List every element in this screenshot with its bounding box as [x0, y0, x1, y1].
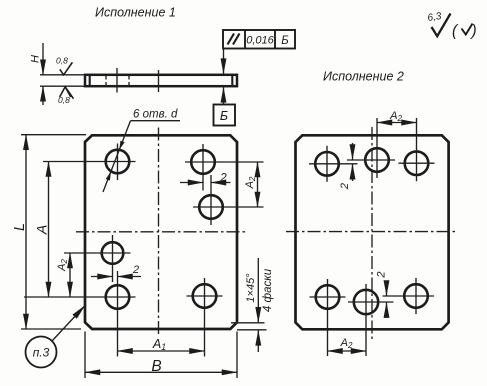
- svg-text:4 фаски: 4 фаски: [262, 268, 274, 312]
- svg-text:2: 2: [219, 173, 227, 185]
- svg-text:2: 2: [376, 271, 388, 278]
- svg-text:6,3: 6,3: [427, 11, 443, 24]
- svg-text:0,8: 0,8: [56, 56, 68, 66]
- svg-text:A1: A1: [152, 337, 166, 352]
- svg-text:(: (: [452, 23, 459, 40]
- svg-text:Исполнение 2: Исполнение 2: [323, 70, 404, 84]
- svg-text:0,8: 0,8: [58, 95, 70, 105]
- svg-text:): ): [470, 23, 477, 40]
- svg-text:Б: Б: [281, 35, 289, 47]
- svg-text:A2: A2: [56, 259, 69, 272]
- svg-text:2: 2: [132, 264, 139, 276]
- svg-text:Исполнение 1: Исполнение 1: [95, 6, 176, 20]
- svg-text:п.3: п.3: [33, 346, 50, 360]
- svg-text:A2: A2: [340, 337, 353, 350]
- svg-text:2: 2: [339, 183, 351, 190]
- svg-text:A2: A2: [389, 110, 402, 123]
- svg-text:0,016: 0,016: [246, 35, 274, 47]
- svg-text:L: L: [12, 223, 28, 231]
- svg-text:B: B: [151, 358, 161, 375]
- svg-text:1×45°: 1×45°: [245, 273, 257, 303]
- svg-text:Б: Б: [220, 109, 228, 123]
- svg-text:A2: A2: [244, 176, 257, 189]
- svg-text:H: H: [30, 55, 42, 63]
- svg-text:6 отв. d: 6 отв. d: [133, 109, 178, 121]
- svg-text:A: A: [34, 225, 50, 235]
